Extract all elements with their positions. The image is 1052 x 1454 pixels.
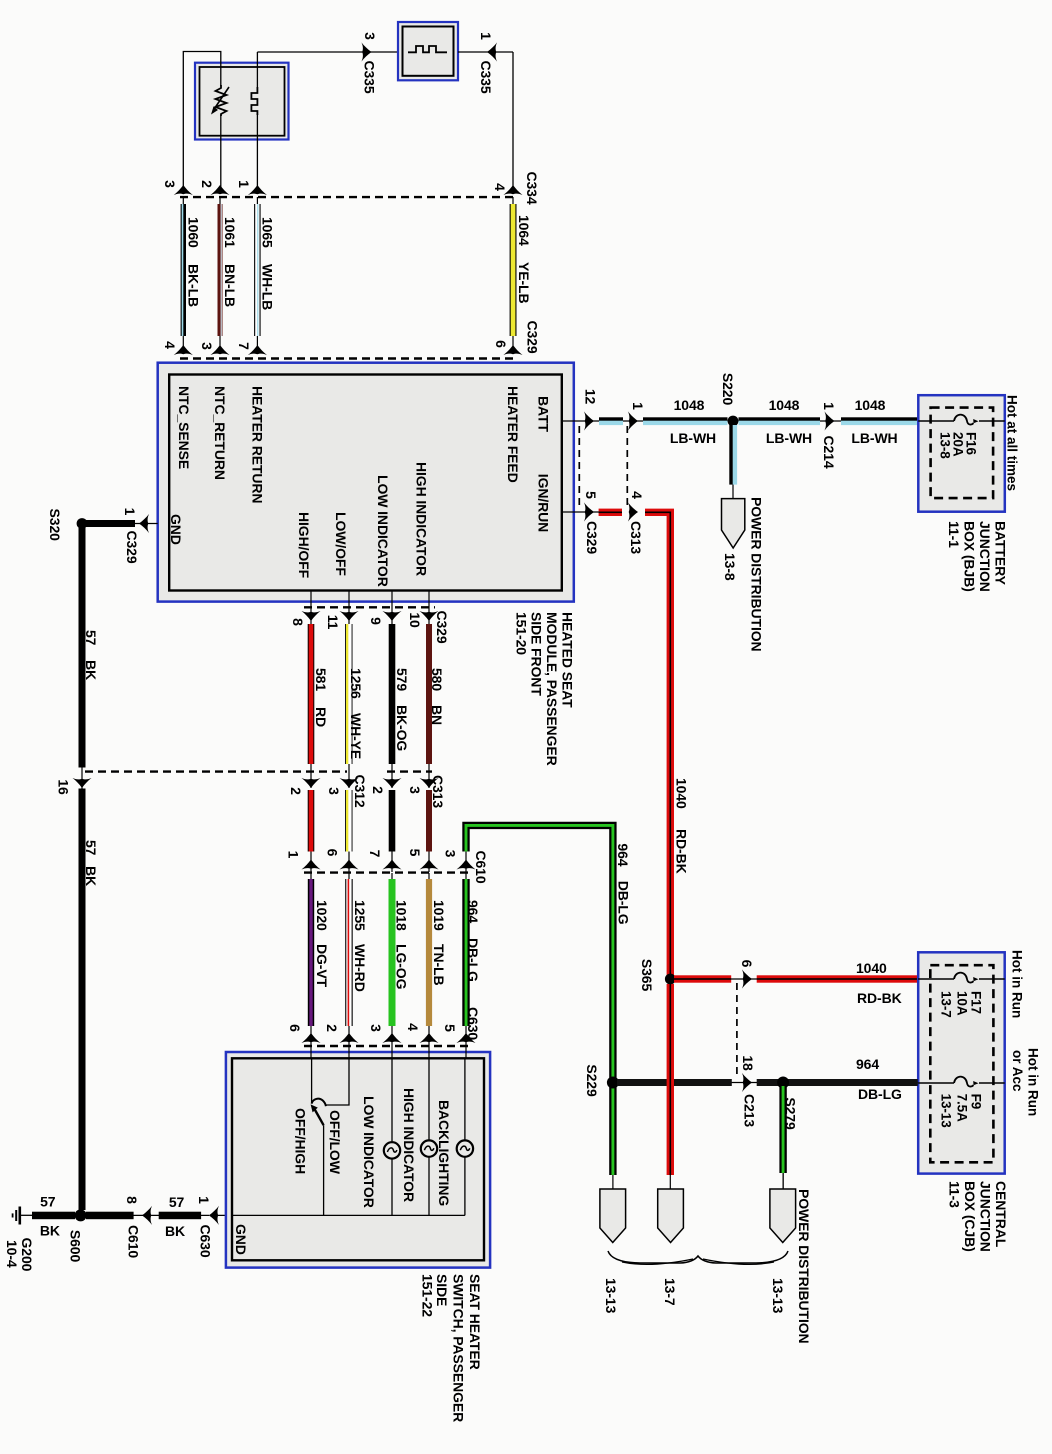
connector C329 dashed line (module top)	[180, 357, 516, 359]
node S600	[75, 1209, 87, 1221]
svg-text:Hot in Run: Hot in Run	[1026, 1048, 1041, 1116]
wire 57 BK (ground run)	[33, 1214, 82, 1216]
svg-text:G200: G200	[19, 1238, 35, 1272]
seat back heater box (inner)	[403, 27, 454, 76]
svg-text:F17: F17	[969, 991, 984, 1014]
wire 1048 LB-WH seg3	[739, 417, 821, 420]
C610 pin7 arrow	[382, 860, 401, 870]
svg-text:4: 4	[162, 341, 178, 349]
svg-text:BOX (BJB): BOX (BJB)	[962, 521, 978, 592]
svg-text:HEATER FEED: HEATER FEED	[505, 386, 521, 483]
wire 581 RD (lower)	[308, 790, 314, 852]
module pin 10 stub	[428, 591, 430, 625]
node S220	[728, 416, 739, 427]
wire 579 BK-OG (upper)	[389, 624, 396, 764]
svg-text:NTC_RETURN: NTC_RETURN	[212, 386, 228, 480]
svg-text:13-7: 13-7	[662, 1278, 678, 1306]
svg-text:964: 964	[615, 843, 631, 866]
wire 1064 YE-LB	[512, 197, 514, 346]
svg-text:HEATED SEAT: HEATED SEAT	[559, 612, 575, 708]
C630 pin3 arrow	[382, 1033, 401, 1043]
svg-text:BK: BK	[83, 660, 99, 680]
svg-text:WH-RD: WH-RD	[352, 944, 368, 992]
module pin 8 stub	[310, 591, 312, 625]
svg-text:BATT: BATT	[536, 396, 552, 432]
svg-text:BK: BK	[83, 866, 99, 886]
svg-text:57: 57	[83, 840, 99, 856]
svg-text:SIDE FRONT: SIDE FRONT	[529, 612, 545, 696]
svg-text:5: 5	[442, 1024, 458, 1032]
svg-text:S229: S229	[584, 1064, 600, 1097]
switch blade to GND bus	[323, 1125, 325, 1215]
C329 inline dashed (right)	[578, 426, 580, 508]
C313 pin4 arrow	[628, 502, 638, 521]
seat cushion heater box (inner)	[200, 67, 285, 136]
C610 dashed line	[304, 871, 470, 873]
switch feed line (WH-RD)	[326, 1058, 349, 1105]
svg-text:3: 3	[368, 1024, 384, 1032]
wire 1040 RD-BK h-seg1	[674, 975, 731, 982]
wire 1018 LG-OG	[391, 873, 393, 1046]
node S229	[607, 1077, 619, 1089]
switch wire stubs into box	[310, 1046, 312, 1058]
svg-text:3: 3	[199, 342, 215, 350]
svg-text:57: 57	[169, 1194, 185, 1210]
wire 581 RD (upper)	[308, 624, 314, 764]
wire 580 BN (lower)	[426, 790, 432, 852]
power distribution arrow 2	[658, 1189, 684, 1243]
wire 964 DB-LG h-seg1	[617, 1079, 732, 1086]
svg-text:C329: C329	[525, 320, 541, 353]
svg-text:MODULE, PASSENGER: MODULE, PASSENGER	[544, 612, 560, 766]
seat heater switch box (outer)	[226, 1052, 490, 1268]
svg-text:DB-LG: DB-LG	[465, 938, 481, 982]
wire 57 BK (S320 down)	[81, 524, 83, 789]
svg-text:7: 7	[367, 850, 383, 858]
low indicator lamp	[391, 1058, 393, 1142]
svg-text:S320: S320	[47, 509, 63, 542]
svg-text:7: 7	[236, 342, 252, 350]
svg-text:NTC_SENSE: NTC_SENSE	[176, 386, 192, 469]
C312 pin3 arrow	[339, 778, 358, 788]
wire 57 BK (S600-C610)	[82, 1214, 142, 1216]
curly brace	[608, 1251, 788, 1263]
wire 1048 LB-WH seg2	[643, 417, 728, 420]
C312 dashed line	[85, 770, 347, 772]
svg-text:WH-YE: WH-YE	[348, 713, 364, 759]
svg-text:10A: 10A	[955, 991, 970, 1016]
svg-text:BK: BK	[165, 1223, 185, 1239]
wire 1255 WH-RD	[348, 873, 350, 1046]
svg-text:1040: 1040	[674, 778, 690, 809]
svg-text:13-7: 13-7	[939, 991, 954, 1018]
C334 pin1 arrow	[248, 185, 267, 195]
svg-text:LB-WH: LB-WH	[851, 430, 897, 446]
wire: back heater to YE riser	[458, 51, 513, 53]
svg-text:LOW INDICATOR: LOW INDICATOR	[375, 475, 391, 587]
svg-text:1018: 1018	[394, 900, 410, 931]
wire: thermistor to C334 pin2	[220, 115, 222, 192]
svg-text:13-13: 13-13	[770, 1278, 786, 1314]
svg-text:8: 8	[290, 618, 306, 626]
module pin 11 stub	[348, 591, 350, 625]
svg-text:C313: C313	[628, 521, 644, 554]
C610 pin5 arrow	[419, 860, 438, 870]
svg-text:10: 10	[407, 612, 423, 628]
wire 1256 WH-YE (lower)	[346, 790, 349, 852]
C334 pin3 arrow	[174, 185, 193, 195]
switch feed line (DG-VT)	[311, 1058, 313, 1103]
svg-text:C335: C335	[362, 60, 378, 93]
switch contact hook	[312, 1099, 326, 1107]
svg-text:1256: 1256	[348, 668, 364, 699]
wire: 964 thin line	[613, 1082, 918, 1084]
wire 1019 TN-LB	[428, 873, 430, 1046]
svg-text:13-8: 13-8	[722, 553, 738, 581]
svg-text:DB-LG: DB-LG	[858, 1086, 902, 1102]
svg-text:WH-LB: WH-LB	[260, 264, 276, 310]
svg-text:3: 3	[407, 786, 423, 794]
svg-text:580: 580	[429, 668, 445, 691]
C630 pin6 arrow	[301, 1033, 320, 1043]
svg-text:C213: C213	[742, 1094, 758, 1127]
svg-text:CENTRAL: CENTRAL	[993, 1181, 1009, 1248]
svg-text:1064: 1064	[516, 215, 532, 246]
svg-text:18: 18	[740, 1055, 756, 1071]
svg-text:6: 6	[493, 340, 509, 348]
svg-text:BN: BN	[429, 705, 445, 725]
svg-text:5: 5	[583, 491, 599, 499]
svg-text:3: 3	[362, 32, 378, 40]
svg-text:LB-WH: LB-WH	[766, 430, 812, 446]
C329 GND pin arrow	[139, 514, 149, 533]
fuse F9 wire	[918, 1082, 954, 1084]
svg-text:9: 9	[368, 617, 384, 625]
C610 pin3 arrow	[456, 860, 475, 870]
svg-text:C313: C313	[430, 775, 446, 808]
svg-text:579: 579	[394, 668, 410, 691]
svg-text:4: 4	[405, 1023, 421, 1031]
svg-text:1: 1	[630, 402, 646, 410]
seat cushion heater box (outer)	[195, 63, 289, 140]
wire 1020 DG-VT	[310, 873, 312, 1046]
seat back heater box (outer)	[398, 22, 458, 80]
svg-text:5: 5	[407, 849, 423, 857]
svg-text:POWER DISTRIBUTION: POWER DISTRIBUTION	[796, 1189, 812, 1344]
C329 pin8 arrow	[301, 611, 320, 621]
C630 arrow (h)	[209, 1206, 219, 1225]
svg-text:2: 2	[288, 787, 304, 795]
wire 1256 WH-YE (upper)	[346, 624, 349, 764]
svg-text:C610: C610	[473, 850, 489, 883]
C334 pin4 arrow	[503, 185, 522, 195]
wire: S279 down	[782, 1083, 784, 1190]
svg-text:1020: 1020	[314, 900, 330, 931]
high indicator lamp	[428, 1058, 430, 1140]
C334 pin2 arrow	[210, 185, 229, 195]
svg-text:1: 1	[196, 1196, 212, 1204]
svg-text:6: 6	[739, 960, 755, 968]
svg-text:11: 11	[325, 615, 341, 630]
svg-text:C335: C335	[478, 60, 494, 93]
node S320	[77, 518, 88, 529]
svg-text:HEATER RETURN: HEATER RETURN	[249, 386, 265, 503]
svg-text:C312: C312	[352, 774, 368, 807]
wire 1061 BN-LB	[219, 197, 221, 346]
svg-text:SWITCH, PASSENGER: SWITCH, PASSENGER	[451, 1274, 467, 1422]
wire: S229 down to arrow	[612, 1175, 614, 1189]
svg-text:POWER DISTRIBUTION: POWER DISTRIBUTION	[749, 497, 765, 652]
svg-text:HIGH INDICATOR: HIGH INDICATOR	[414, 462, 430, 576]
svg-text:BOX (CJB): BOX (CJB)	[962, 1181, 978, 1252]
svg-text:C214: C214	[821, 435, 837, 468]
C313 pin2 arrow	[382, 778, 401, 788]
svg-text:1048: 1048	[674, 397, 705, 413]
svg-text:IGN/RUN: IGN/RUN	[536, 474, 552, 532]
svg-text:C329: C329	[434, 610, 450, 643]
svg-text:1: 1	[821, 402, 837, 410]
C630 pin2 arrow	[339, 1033, 358, 1043]
wire 580 BN (upper)	[426, 624, 432, 764]
heated seat module box (inner)	[169, 375, 562, 591]
ground G200 symbol	[18, 1207, 21, 1225]
fuse F9	[954, 1077, 979, 1087]
fuse F16	[954, 415, 979, 425]
wire: S220 to power distribution	[732, 421, 734, 499]
svg-text:151-22: 151-22	[420, 1274, 436, 1317]
C630 dashed line	[304, 1045, 470, 1047]
svg-text:1: 1	[478, 32, 494, 40]
svg-text:or Acc: or Acc	[1010, 1050, 1025, 1092]
C329 pin11 arrow	[339, 611, 358, 621]
svg-text:12: 12	[583, 389, 599, 405]
svg-text:57: 57	[83, 630, 99, 646]
C329 bottom dashed line	[304, 606, 435, 608]
wire: cushion element top riser	[256, 52, 258, 87]
svg-text:BACKLIGHTING: BACKLIGHTING	[436, 1100, 452, 1206]
wire 57 BK: S320 to module GND	[82, 523, 158, 525]
svg-text:C334: C334	[524, 171, 540, 204]
C213 inline dashed	[736, 983, 738, 1078]
backlighting lamp	[464, 1058, 466, 1140]
connector C335 pin3 arrow	[361, 42, 371, 61]
wire 964 DB-LG (corner to S229)	[466, 825, 613, 1175]
wire: BATT thin line	[600, 420, 918, 422]
svg-text:1: 1	[236, 180, 252, 188]
connector C335 pin1 arrow	[487, 42, 497, 61]
thermistor (cushion temp sensor)	[216, 85, 227, 116]
wire 1048 LB-WH seg1	[599, 417, 623, 420]
C329 pin3 arrow	[210, 345, 229, 355]
switch blade	[314, 1109, 323, 1126]
svg-text:BK-OG: BK-OG	[394, 705, 410, 751]
node S365	[665, 974, 676, 985]
wire 1065 WH-LB	[256, 197, 258, 346]
wire 57 BK (C610-C630)	[142, 1214, 209, 1216]
C610 pin6 arrow	[339, 860, 358, 870]
battery junction box	[918, 395, 1005, 512]
svg-text:GND: GND	[233, 1224, 249, 1255]
pin 18 arrow (C213)	[742, 1073, 752, 1092]
switch GND bus	[232, 1214, 465, 1216]
svg-text:OFF/HIGH: OFF/HIGH	[293, 1108, 309, 1174]
C329 pin6 arrow	[503, 345, 522, 355]
svg-text:BATTERY: BATTERY	[993, 521, 1009, 586]
svg-text:YE-LB: YE-LB	[516, 262, 532, 304]
wire 964 DB-LG (bundle)	[465, 873, 467, 1046]
power distribution arrow (top)	[722, 499, 745, 548]
svg-text:13-13: 13-13	[939, 1094, 954, 1129]
C312 pin16 arrow	[72, 778, 91, 788]
svg-text:10-4: 10-4	[4, 1240, 20, 1268]
C214 arrow	[824, 411, 834, 430]
power distribution arrow 1	[600, 1189, 626, 1243]
svg-text:BK-LB: BK-LB	[186, 264, 202, 307]
central junction box	[918, 952, 1005, 1173]
svg-text:3: 3	[162, 180, 178, 188]
svg-text:DG-VT: DG-VT	[314, 944, 330, 988]
svg-text:11-3: 11-3	[947, 1181, 963, 1208]
wire: 1040 thin line	[670, 978, 918, 980]
svg-text:57: 57	[40, 1194, 56, 1210]
wire 964 DB-LG (C610 stub)	[465, 852, 467, 873]
module pin 9 stub	[391, 591, 393, 625]
C329 pin4 arrow	[174, 345, 193, 355]
svg-text:S365: S365	[639, 959, 655, 992]
BJB dashed box	[931, 408, 994, 499]
svg-text:2: 2	[199, 180, 215, 188]
svg-text:RD-BK: RD-BK	[857, 990, 902, 1006]
svg-text:7.5A: 7.5A	[955, 1094, 970, 1122]
fuse F17 wire	[918, 978, 954, 980]
svg-text:BN-LB: BN-LB	[222, 264, 238, 307]
svg-text:C329: C329	[124, 530, 140, 563]
C329 pin12 arrow	[584, 411, 594, 430]
wire 57 BK (to S600)	[81, 768, 83, 1214]
svg-text:3: 3	[443, 850, 459, 858]
svg-text:LB-WH: LB-WH	[670, 430, 716, 446]
svg-text:HIGH INDICATOR: HIGH INDICATOR	[401, 1088, 417, 1202]
wire 579 BK-OG (lower)	[389, 790, 396, 852]
svg-text:SEAT HEATER: SEAT HEATER	[467, 1274, 483, 1370]
svg-text:C329: C329	[584, 521, 600, 554]
svg-text:1065: 1065	[260, 217, 276, 248]
svg-text:3: 3	[326, 787, 342, 795]
wire: S365 down	[669, 979, 671, 1189]
svg-text:1048: 1048	[855, 397, 886, 413]
C610 pin1 arrow	[301, 860, 320, 870]
C313 pin1 arrow	[628, 411, 638, 430]
svg-text:1255: 1255	[352, 900, 368, 931]
svg-text:BK: BK	[40, 1223, 60, 1239]
svg-text:F9: F9	[969, 1094, 984, 1110]
svg-text:8: 8	[124, 1196, 140, 1204]
svg-text:1061: 1061	[222, 217, 238, 248]
svg-text:RD-BK: RD-BK	[674, 829, 690, 874]
wire: S279 arrow stub	[782, 1173, 784, 1189]
svg-text:GND: GND	[168, 514, 184, 545]
wire 964 DB-LG h-seg2	[757, 1079, 918, 1086]
svg-text:JUNCTION: JUNCTION	[978, 1181, 994, 1252]
seat heater switch box (inner)	[232, 1058, 484, 1260]
C630 pin4 arrow	[419, 1033, 438, 1043]
svg-text:C630: C630	[198, 1224, 214, 1257]
svg-text:1060: 1060	[186, 217, 202, 248]
C313 inline dashed (right)	[626, 426, 628, 508]
svg-text:13-13: 13-13	[603, 1278, 619, 1314]
svg-text:LOW INDICATOR: LOW INDICATOR	[361, 1096, 377, 1208]
svg-text:LG-OG: LG-OG	[394, 944, 410, 990]
svg-text:1: 1	[286, 851, 302, 859]
svg-text:S220: S220	[720, 373, 736, 406]
svg-text:4: 4	[629, 491, 645, 499]
svg-text:6: 6	[324, 849, 340, 857]
wire: heat element to C334 pin1	[256, 114, 258, 192]
wire: module BATT pin	[562, 420, 600, 422]
connector C334 dashed line	[180, 196, 516, 198]
C313 pin3 arrow	[419, 778, 438, 788]
power distribution arrow 3	[770, 1189, 796, 1243]
svg-text:13-8: 13-8	[938, 432, 953, 459]
C630 pin5 arrow	[456, 1033, 475, 1043]
svg-text:RD: RD	[313, 707, 329, 727]
C313 dashed line	[387, 770, 432, 772]
C329 pin5 arrow	[584, 502, 594, 521]
svg-text:964: 964	[465, 900, 481, 923]
C329 pin9 arrow	[382, 611, 401, 621]
svg-text:2: 2	[324, 1024, 340, 1032]
node S279	[777, 1077, 789, 1089]
svg-text:16: 16	[56, 779, 72, 795]
wire: riser to C334 pin4	[512, 52, 514, 192]
svg-text:6: 6	[287, 1024, 303, 1032]
svg-text:TN-LB: TN-LB	[431, 944, 447, 986]
wire 1040 RD-BK (corner)	[645, 512, 670, 979]
svg-text:1019: 1019	[431, 900, 447, 931]
svg-text:4: 4	[492, 183, 508, 191]
C610 arrow (h)	[142, 1206, 152, 1225]
svg-text:151-20: 151-20	[513, 612, 529, 655]
svg-text:Hot at all times: Hot at all times	[1005, 395, 1020, 491]
heated seat module box (outer)	[158, 363, 574, 602]
fuse F17	[954, 973, 979, 983]
svg-text:LOW/OFF: LOW/OFF	[333, 512, 349, 576]
svg-text:1048: 1048	[769, 397, 800, 413]
svg-text:581: 581	[313, 668, 329, 691]
wire: cushion element to back heater	[257, 51, 398, 53]
wire: C630 to switch box	[209, 1214, 232, 1216]
CJB dashed box	[930, 965, 993, 1162]
svg-text:2: 2	[370, 786, 386, 794]
wire 1040 RD-BK h-seg2	[757, 975, 918, 982]
wire 1040 RD-BK (IGN to corner)	[599, 509, 622, 516]
svg-text:1: 1	[122, 508, 138, 516]
svg-text:JUNCTION: JUNCTION	[977, 521, 993, 592]
heating element (cushion)	[251, 87, 257, 115]
wire 1048 LB-WH seg4	[841, 417, 918, 420]
heating element (back)	[408, 46, 447, 52]
C329 pin10 arrow	[419, 611, 438, 621]
fuse F16 wire	[918, 420, 954, 422]
wire: module IGN/RUN pin	[562, 511, 604, 513]
pin 6 arrow (C213)	[742, 969, 752, 988]
svg-text:S600: S600	[68, 1230, 84, 1263]
svg-text:1040: 1040	[856, 960, 887, 976]
wire: C334 pin3 riser to thermistor	[183, 52, 221, 193]
svg-text:DB-LG: DB-LG	[616, 881, 632, 925]
svg-text:11-1: 11-1	[946, 521, 962, 548]
svg-text:C610: C610	[126, 1225, 142, 1258]
